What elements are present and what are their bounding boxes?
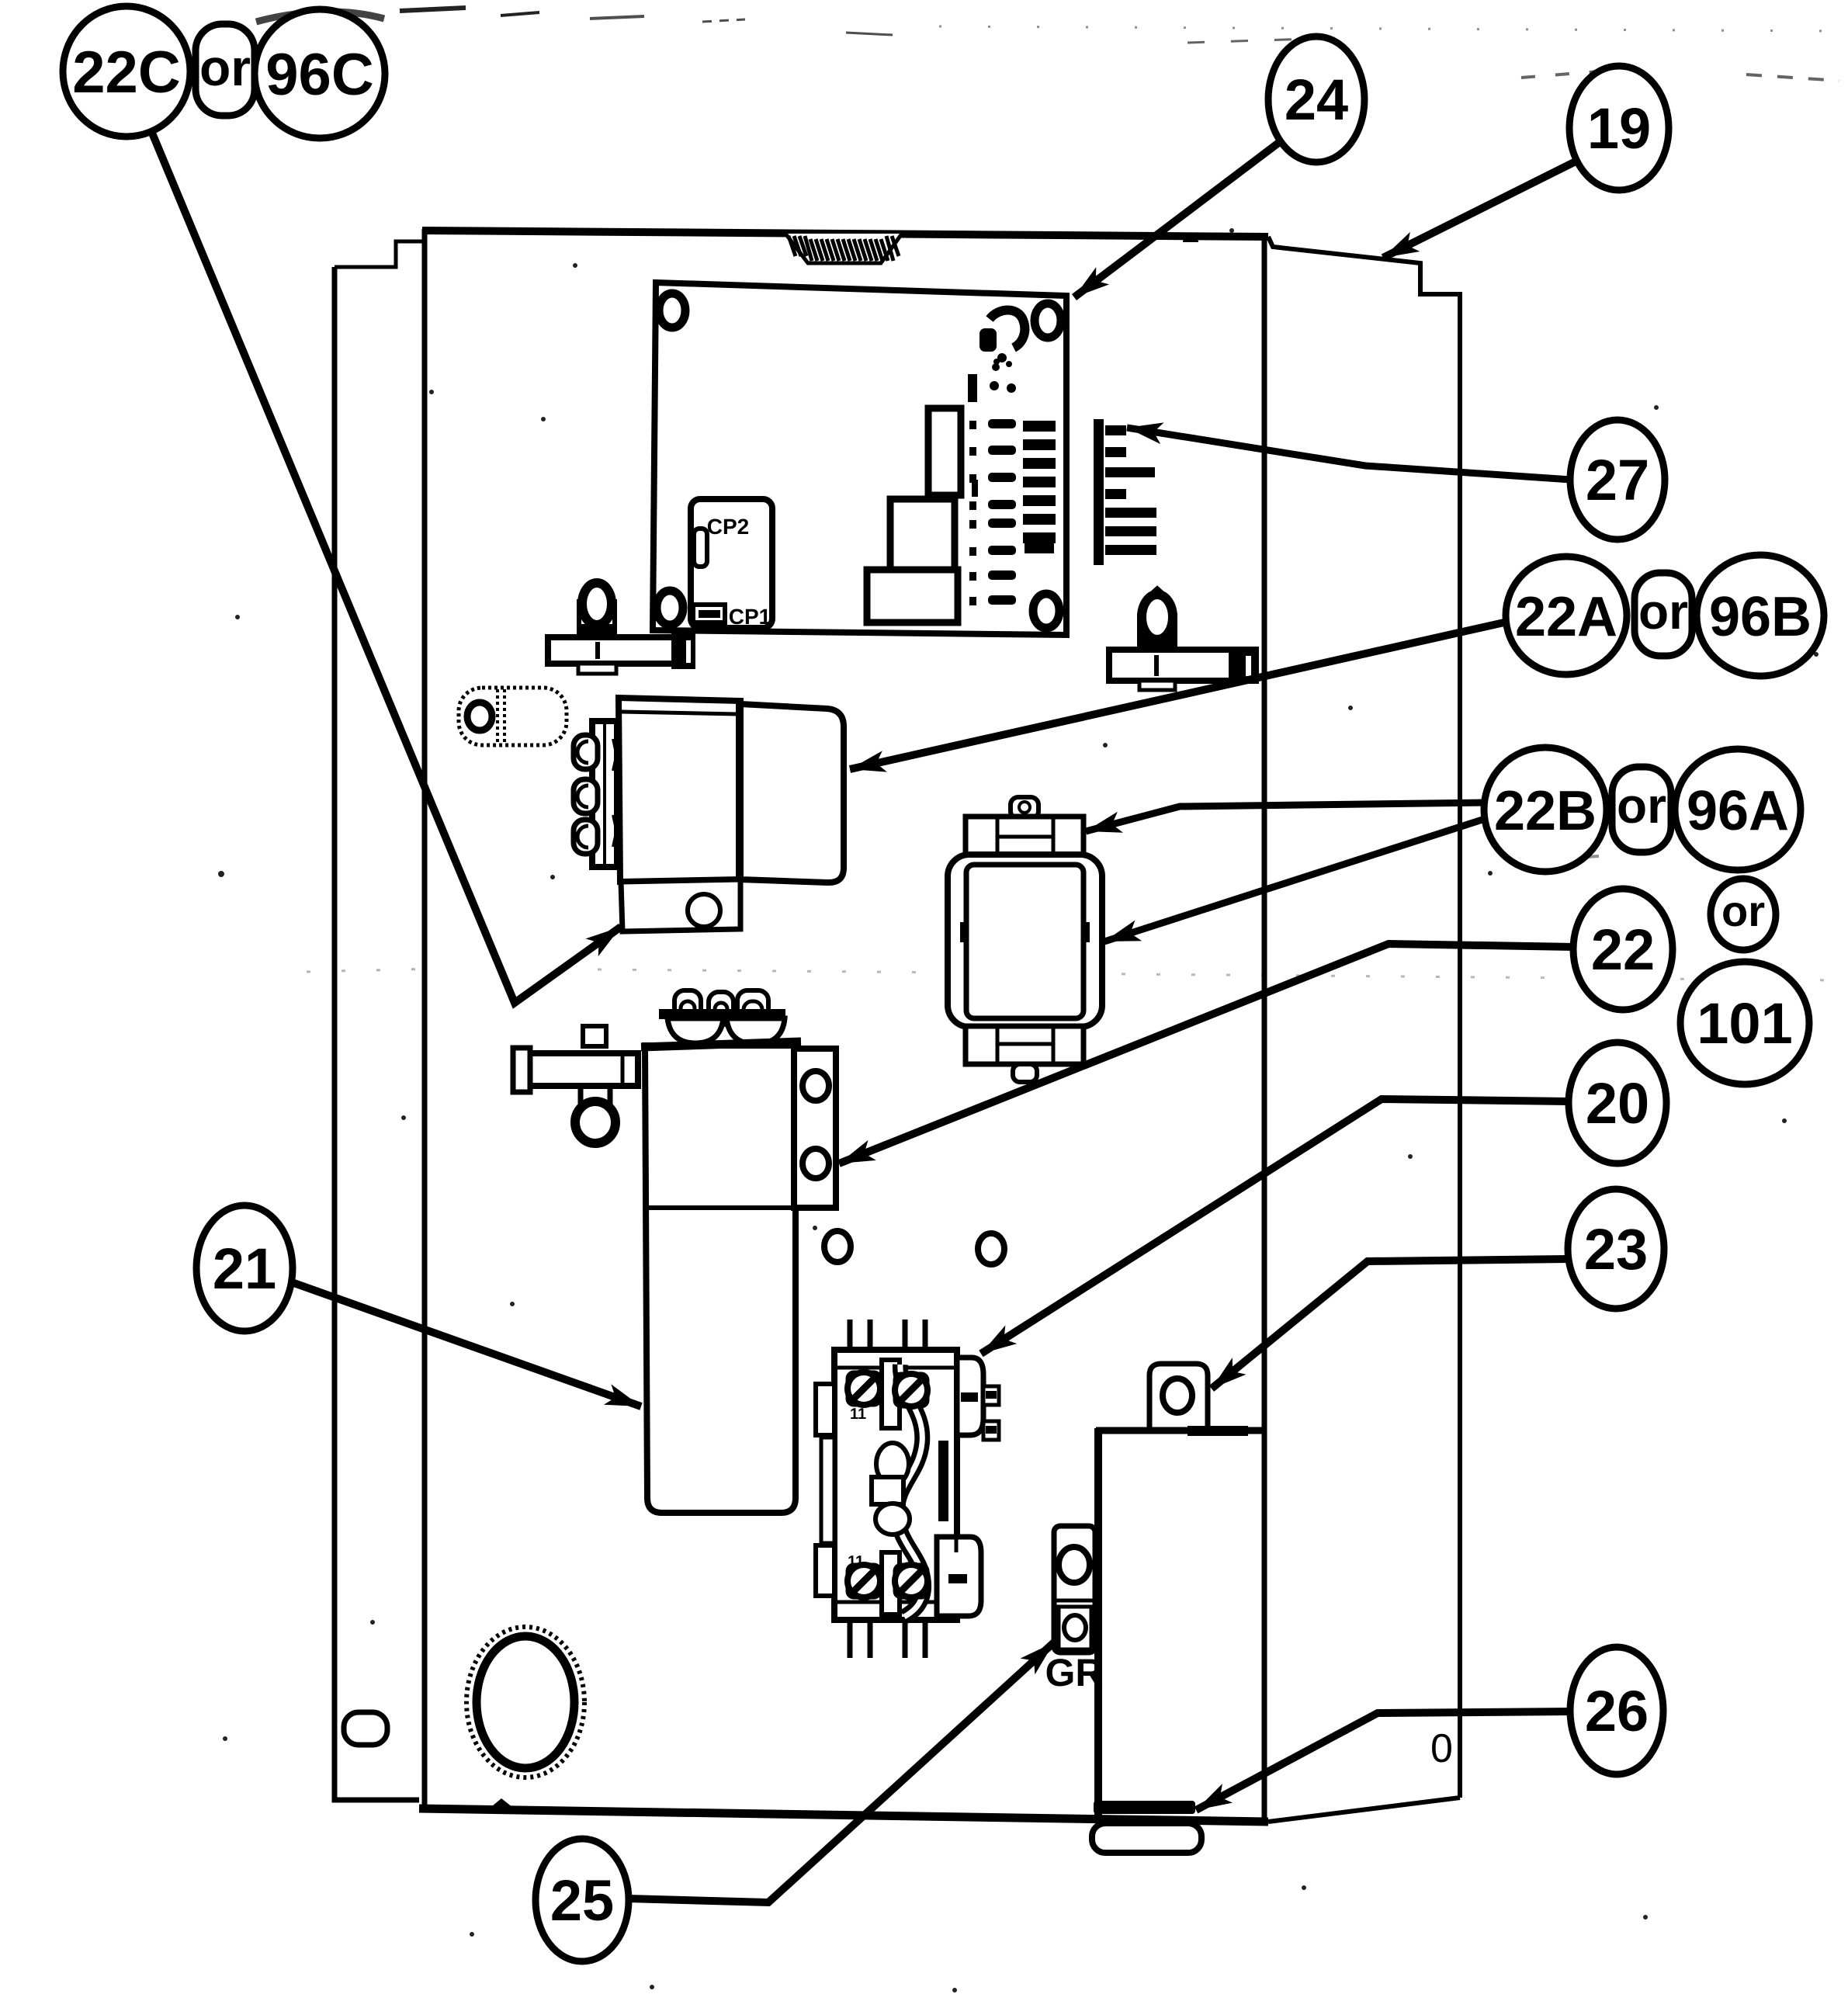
callout 20 <box>1569 1042 1666 1163</box>
svg-text:0: 0 <box>1430 1726 1453 1771</box>
board mounting hole bottom-right <box>1033 594 1059 628</box>
callout 21 <box>196 1205 293 1331</box>
panel screw hole left <box>824 1231 851 1262</box>
leader 24 <box>1074 141 1281 297</box>
board black dash <box>968 374 977 402</box>
slot in left flange <box>344 1712 387 1745</box>
standoff clip right <box>1109 589 1256 690</box>
mounting bolt and clamp left of capacitor <box>513 1026 638 1143</box>
callout 96B <box>1697 555 1824 676</box>
board mounting hole top-left <box>659 293 685 328</box>
callout or 96A-101 <box>1711 879 1776 950</box>
capacitor clamp bowls <box>667 1018 723 1043</box>
board component rect low <box>867 570 958 622</box>
leader 21 <box>292 1282 641 1406</box>
front panel of control box <box>419 229 1268 1822</box>
leader 25 <box>628 1642 1054 1902</box>
capacitor 21 <box>641 990 836 1513</box>
contactor inner contacts <box>876 1443 909 1485</box>
leader 20 <box>981 1099 1569 1354</box>
svg-text:96A: 96A <box>1687 780 1789 842</box>
relay 22A <box>574 698 844 931</box>
leader 27 <box>1127 428 1571 480</box>
leader 22 <box>839 944 1575 1163</box>
svg-text:24: 24 <box>1285 68 1348 132</box>
top notch with hatch <box>785 234 902 263</box>
leader 19 <box>1383 160 1579 258</box>
svg-text:22A: 22A <box>1515 586 1617 648</box>
svg-text:27: 27 <box>1586 448 1649 512</box>
contactor body <box>834 1350 957 1620</box>
capacitor clamp bar <box>659 1009 785 1019</box>
contactor screws <box>848 1372 880 1405</box>
contactor 20 <box>816 1320 999 1658</box>
contactor right lug bottom <box>937 1537 981 1616</box>
svg-text:96C: 96C <box>265 42 373 108</box>
board mounting hole top-right <box>1035 303 1061 338</box>
circuit board 24 <box>653 283 1066 635</box>
callout 22C <box>63 6 190 137</box>
capacitor body <box>645 1046 796 1513</box>
svg-text:21: 21 <box>213 1236 276 1301</box>
svg-text:101: 101 <box>1697 991 1792 1056</box>
small triangle bump on bottom edge <box>487 1798 516 1810</box>
callout 22 <box>1573 889 1673 1010</box>
relay plug terminals <box>574 735 598 854</box>
knockout hole in panel bottom left <box>466 1627 584 1777</box>
board component rect tall <box>928 408 961 495</box>
svg-text:22C: 22C <box>72 40 180 106</box>
leader 22A <box>850 622 1504 769</box>
svg-text:20: 20 <box>1586 1071 1649 1136</box>
board terminal letters column <box>969 421 978 605</box>
callout 101 <box>1680 962 1809 1084</box>
transformer 22B <box>948 797 1102 1082</box>
right side panel of control box <box>1268 237 1460 1822</box>
svg-text:or: or <box>1617 778 1666 834</box>
leader 22B upper <box>1086 803 1487 831</box>
board pin dashes <box>988 419 1016 605</box>
callout or 22B-96A <box>1612 767 1671 852</box>
svg-text:22B: 22B <box>1494 780 1597 842</box>
keyhole bracket <box>459 688 567 745</box>
callout 96A <box>1675 749 1801 870</box>
capacitor terminals <box>674 990 768 1025</box>
svg-text:26: 26 <box>1585 1679 1649 1743</box>
callout or 22A-96B <box>1635 573 1692 656</box>
panel screw hole right <box>978 1233 1004 1264</box>
contactor S contact band <box>897 1365 924 1617</box>
wire harness connector 27 <box>1094 419 1156 565</box>
ground terminal GR <box>1045 1526 1103 1694</box>
contactor left plates <box>816 1384 834 1435</box>
small bumps on top edge <box>499 227 515 234</box>
svg-text:23: 23 <box>1584 1217 1648 1281</box>
leader 26 <box>1196 1711 1572 1810</box>
svg-text:or: or <box>1638 584 1688 640</box>
callout 27 <box>1570 420 1665 539</box>
callout 96C <box>255 9 385 138</box>
callout 25 <box>536 1839 629 1961</box>
svg-text:11: 11 <box>850 1406 866 1423</box>
leader 22C <box>151 131 621 1003</box>
callout 22B <box>1484 747 1607 872</box>
svg-text:or: or <box>1721 886 1765 935</box>
svg-text:22: 22 <box>1591 917 1655 982</box>
svg-text:or: or <box>199 39 251 96</box>
svg-text:CP1: CP1 <box>729 605 771 629</box>
wire hook on board <box>990 310 1025 349</box>
leader 22B lower <box>1104 818 1487 942</box>
contactor right lug top <box>957 1358 983 1435</box>
callout 24 <box>1268 36 1364 162</box>
svg-text:CP2: CP2 <box>707 515 749 539</box>
callout 22A <box>1506 557 1627 675</box>
sub-board CP1/CP2 <box>691 499 772 628</box>
bracket box 23 bottom right <box>1092 1364 1263 1853</box>
callout 23 <box>1568 1189 1664 1309</box>
svg-text:96B: 96B <box>1709 586 1812 648</box>
board mounting hole bottom-left <box>657 591 683 625</box>
board edge connector comb <box>1023 421 1056 553</box>
board component rect mid <box>890 499 955 572</box>
svg-text:19: 19 <box>1587 96 1651 161</box>
capacitor mounting plate <box>794 1049 836 1208</box>
callout 19 <box>1569 66 1669 190</box>
standoff clip left <box>548 583 695 674</box>
callout or top <box>196 24 255 116</box>
contactor wires <box>850 1320 925 1658</box>
scan noise streaks (decorative, unlabeled content group) <box>256 8 1839 980</box>
leader 23 <box>1212 1259 1569 1389</box>
callout 26 <box>1570 1647 1663 1774</box>
left mounting flange of control panel <box>335 241 425 1800</box>
svg-text:25: 25 <box>550 1868 614 1933</box>
